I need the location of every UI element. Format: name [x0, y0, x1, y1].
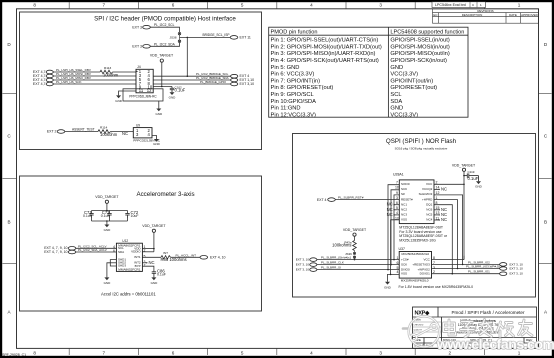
jumper JS36 — [353, 251, 355, 260]
capacitor C71 — [89, 214, 93, 219]
svg-text:EXT 4: EXT 4 — [317, 198, 327, 202]
wire U37 right pins to bus — [432, 184, 465, 273]
svg-text:GND: GND — [104, 228, 112, 232]
ground (U9) — [153, 139, 161, 146]
capacitor C119 — [464, 173, 479, 181]
ground (C119) — [475, 181, 483, 188]
connector EXT left (accel SCL/SDA) — [68, 247, 76, 254]
junction bridge net on SCL wire — [187, 75, 189, 77]
svg-text:VCC(3.3V): VCC(3.3V) — [390, 112, 418, 118]
svg-text:CHECKED: CHECKED — [414, 325, 424, 327]
svg-text:GND: GND — [475, 185, 483, 189]
section box SPI/I2C header — [20, 12, 262, 150]
svg-text:For 1.8V board version use MX2: For 1.8V board version use MX25R6435FM2I… — [399, 285, 474, 289]
ground (C86) — [151, 277, 159, 284]
wire loop to gnd stem — [158, 101, 160, 109]
svg-text:U37: U37 — [399, 247, 405, 251]
svg-text:VDD_TARGET: VDD_TARGET — [95, 195, 119, 199]
wire EXT2 to R114 — [65, 131, 98, 133]
margin tick marks bottom — [69, 349, 484, 356]
svg-text:0.1uF: 0.1uF — [83, 214, 92, 218]
svg-text:VDD_TARGET: VDD_TARGET — [452, 163, 476, 167]
svg-text:INT1: INT1 — [134, 255, 141, 259]
connector EXT right bank (3 ovals) — [231, 74, 238, 85]
svg-text:7: 7 — [144, 264, 146, 268]
svg-text:10uF: 10uF — [131, 214, 139, 218]
grid column labels bottom — [33, 351, 520, 356]
svg-text:GND: GND — [151, 281, 159, 285]
svg-text:SCL: SCL — [390, 92, 401, 98]
svg-text:GPIO/SPI-SCK(in/out): GPIO/SPI-SCK(in/out) — [390, 58, 447, 64]
svg-text:EXT 3: EXT 3 — [132, 25, 142, 29]
watermark elecfans logo circle — [403, 316, 439, 347]
capacitor C73 — [107, 214, 111, 219]
svg-text:R86 100ohms: R86 100ohms — [161, 257, 187, 262]
svg-text:Pin 2: GPIO/SPI-MOSI(out)/UAR: Pin 2: GPIO/SPI-MOSI(out)/UART-TXD(out) — [271, 44, 382, 50]
margin tick marks right — [539, 94, 552, 264]
svg-text:5: 5 — [241, 2, 244, 7]
capacitor C102 — [170, 87, 174, 93]
section box QSPI NOR Flash — [293, 134, 536, 298]
svg-text:QSPI (SPIFI ) NOR Flash: QSPI (SPIFI ) NOR Flash — [386, 138, 457, 145]
power VDD_TARGET (flash) — [452, 163, 476, 184]
flash U28A1 — [393, 172, 434, 223]
svg-text:6: 6 — [172, 2, 175, 7]
svg-text:LPC54608 supported function: LPC54608 supported function — [390, 30, 464, 36]
connector EXT3 (SCL) — [132, 25, 150, 29]
ground (cap bank) — [104, 225, 112, 233]
watermark url text — [436, 336, 554, 352]
net labels qspi left bus — [321, 256, 352, 270]
junction right bus — [462, 264, 464, 266]
svg-text:R114: R114 — [100, 126, 107, 130]
svg-text:Accel I2C addrs = 0b0011101: Accel I2C addrs = 0b0011101 — [101, 292, 156, 297]
svg-text:EXT 3,10: EXT 3,10 — [240, 82, 255, 86]
svg-text:VCCQ2: VCCQ2 — [422, 187, 433, 191]
svg-text:VCC: VCC — [423, 257, 430, 261]
svg-text:EXT 11: EXT 11 — [240, 36, 251, 40]
svg-text:0.1uF: 0.1uF — [101, 214, 110, 218]
connector J4 PMOD header — [136, 65, 153, 93]
svg-text:PPPC062LJBN-RC: PPPC062LJBN-RC — [129, 94, 157, 98]
flash U37 (SO8) — [399, 247, 432, 278]
connector EXT11 — [230, 36, 251, 40]
svg-text:SDA: SDA — [118, 250, 124, 254]
resistor R114 — [98, 130, 111, 134]
svg-text:B: B — [544, 220, 547, 225]
svg-text:VSS: VSS — [401, 218, 407, 222]
svg-text:NC1: NC1 — [401, 202, 407, 206]
net labels qspi right bus — [466, 260, 506, 273]
ground (flash vss) — [384, 282, 392, 290]
svg-text:RESET#: RESET# — [401, 197, 413, 201]
svg-text:NC3: NC3 — [401, 213, 407, 217]
grid row labels right — [544, 42, 548, 315]
NC mark INT2 — [142, 260, 154, 265]
svg-text:EXT 3, 10: EXT 3, 10 — [296, 268, 310, 272]
svg-text:Pin 3: GPIO/SPI-MISO(in)/UART: Pin 3: GPIO/SPI-MISO(in)/UART-RXD(in) — [271, 51, 376, 57]
junction accel vdd — [153, 248, 155, 250]
svg-text:Accelerometer 3-axis: Accelerometer 3-axis — [136, 191, 194, 198]
grid column labels top — [33, 2, 520, 7]
svg-text:1: 1 — [518, 2, 521, 7]
svg-text:EXT 4,7: EXT 4,7 — [33, 82, 46, 86]
svg-text:SHD3: SHD3 — [118, 264, 126, 268]
svg-text:DATE: DATE — [509, 13, 517, 17]
svg-text:PL_LSPI_HS_SCK: PL_LSPI_HS_SCK — [56, 80, 82, 84]
connector EXT 4,10 (INT) — [200, 255, 226, 259]
wire SCL to jumper — [150, 27, 179, 32]
connector EXT left bank (4 ovals) — [46, 70, 53, 86]
svg-text:INT: INT — [163, 251, 168, 255]
svg-text:LPC546xx Eval brd: LPC546xx Eval brd — [435, 3, 466, 7]
svg-text:NC: NC — [149, 260, 155, 265]
svg-text:+CS#: +CS# — [401, 257, 409, 261]
svg-text:SO16 pkg / SO8 pkg mutually ex: SO16 pkg / SO8 pkg mutually exclusive — [395, 147, 448, 151]
svg-text:VDD_TARGET: VDD_TARGET — [142, 224, 166, 228]
wire J4 pin11 to left gnd — [119, 91, 136, 95]
junction vdd/cap — [463, 175, 465, 177]
svg-text:PL_SLBRR_RST#: PL_SLBRR_RST# — [338, 196, 364, 200]
resistor R86 — [161, 256, 171, 259]
svg-text:SPF-29028_C1: SPF-29028_C1 — [2, 353, 26, 357]
junction bridge/vertical — [187, 37, 189, 39]
svg-text:PL_SLBRR_CLK: PL_SLBRR_CLK — [321, 261, 344, 265]
svg-text:EXT 3: EXT 3 — [132, 45, 142, 49]
title block — [413, 307, 537, 348]
svg-text:BRIDGE_SCL_ISP: BRIDGE_SCL_ISP — [202, 33, 229, 37]
svg-text:100kohm: 100kohm — [100, 132, 118, 137]
wire U28A1 vss down — [391, 220, 400, 275]
svg-text:SHLD/IO3: SHLD/IO3 — [419, 192, 433, 196]
wire bridge out — [180, 36, 231, 38]
svg-text:5: 5 — [144, 255, 146, 259]
svg-text:GPIO/RESET(out): GPIO/RESET(out) — [390, 85, 437, 91]
power VDD_TARGET (J4) — [150, 54, 174, 87]
svg-text:Pin 4: GPIO/SPI-SCK(out)/UART: Pin 4: GPIO/SPI-SCK(out)/UART-RTS(out) — [271, 58, 379, 64]
svg-text:4: 4 — [397, 270, 399, 274]
ground (left of J4) — [115, 95, 123, 102]
svg-text:GND: GND — [153, 142, 161, 146]
wire VCC pin to vdd — [434, 183, 464, 185]
svg-text:GND: GND — [390, 106, 403, 112]
NC marks left NC pins — [387, 202, 400, 217]
svg-text:8: 8 — [33, 2, 36, 7]
svg-text:GPIO/INT(out/in): GPIO/INT(out/in) — [390, 78, 433, 84]
wire accel shd pins to gnd — [107, 260, 117, 278]
wire reset to flash — [335, 199, 399, 201]
svg-text:VDD_TARGET: VDD_TARGET — [150, 54, 174, 58]
svg-text:PMOD pin function: PMOD pin function — [271, 30, 318, 36]
power VDD_TARGET (accel) — [142, 224, 166, 252]
resistor R43a pull-up — [353, 241, 357, 251]
svg-text:6: 6 — [172, 351, 175, 356]
svg-text:SDA: SDA — [390, 99, 402, 105]
connector EXT2 — [47, 130, 65, 134]
svg-text:4: 4 — [310, 2, 313, 7]
svg-text:SPI / I2C header (PMOD compati: SPI / I2C header (PMOD compatible) Host … — [94, 16, 236, 23]
accelerometer U12 — [116, 239, 142, 271]
connector EXT3 (SDA) — [132, 45, 150, 49]
svg-text:U9: U9 — [136, 124, 140, 128]
svg-text:SI/IO0: SI/IO0 — [401, 182, 410, 186]
svg-text:Pin 8: GPIO/RESET(out): Pin 8: GPIO/RESET(out) — [271, 85, 334, 91]
svg-text:BYP: BYP — [135, 264, 141, 268]
svg-text:NC: NC — [387, 212, 393, 217]
svg-text:NC6: NC6 — [426, 208, 432, 212]
svg-text:DQ1: DQ1 — [426, 202, 433, 206]
svg-text:ASSERT_TEST: ASSERT_TEST — [72, 127, 95, 131]
capacitor C86 — [152, 272, 156, 278]
wire accel i2c — [76, 248, 117, 252]
connector EXT 3,10 left bank QSPI — [310, 258, 317, 272]
svg-text:EXT 3, 10: EXT 3, 10 — [296, 263, 310, 267]
junction pullup on cs wire — [354, 259, 356, 261]
svg-text:8: 8 — [33, 351, 36, 356]
svg-text:Pin 10:GPIO/SDA: Pin 10:GPIO/SDA — [271, 99, 317, 105]
wire R114 to U9 — [111, 131, 134, 133]
svg-text:6: 6 — [113, 249, 115, 253]
svg-text:100kohms: 100kohms — [332, 243, 351, 248]
svg-text:Pin 9: GPIO/SCL: Pin 9: GPIO/SCL — [271, 92, 314, 98]
svg-text:VDDIO: VDDIO — [131, 249, 141, 253]
net labels right bus — [196, 72, 229, 84]
wire bus left to J4 — [53, 72, 136, 84]
svg-text:PL_BRIDGE_GPIO: PL_BRIDGE_GPIO — [200, 80, 227, 84]
svg-text:QUALITY: QUALITY — [414, 329, 423, 332]
PMOD pin function table — [269, 27, 468, 117]
junction cap bank — [106, 210, 108, 212]
svg-text:NC4: NC4 — [426, 218, 432, 222]
power VDD_TARGET (pullup) — [343, 228, 367, 241]
svg-text:3: 3 — [379, 351, 382, 356]
svg-text:GND: GND — [155, 112, 163, 116]
wire cap bank rails — [92, 211, 128, 225]
svg-text:DESCRIPTION: DESCRIPTION — [462, 13, 483, 17]
wire U37 vss to gnd — [388, 274, 400, 281]
svg-text:VDD_TARGET: VDD_TARGET — [343, 228, 367, 232]
svg-text:7: 7 — [103, 351, 106, 356]
svg-text:+RESET/IO3: +RESET/IO3 — [412, 262, 430, 266]
svg-text:100ohm: 100ohm — [103, 72, 119, 77]
svg-text:GND: GND — [390, 65, 403, 71]
svg-text:GND: GND — [115, 99, 123, 103]
capacitor C72 — [125, 214, 129, 219]
svg-text:NC: NC — [122, 131, 128, 136]
svg-text:EXT 2: EXT 2 — [47, 130, 57, 134]
svg-text:0.1uF: 0.1uF — [468, 176, 479, 181]
svg-text:4: 4 — [310, 351, 313, 356]
svg-text:B: B — [7, 220, 10, 225]
svg-text:9: 9 — [396, 191, 398, 195]
wire SDA to jumper — [150, 43, 179, 47]
svg-text:PL_ACCL_INT: PL_ACCL_INT — [176, 253, 197, 257]
svg-text:GND: GND — [384, 286, 392, 290]
svg-text:NC: NC — [441, 217, 447, 222]
svg-text:GND: GND — [104, 281, 112, 285]
ground (loop bottom) — [155, 109, 163, 116]
wire resistor to EXT — [171, 256, 201, 258]
svg-text:3: 3 — [379, 2, 382, 7]
junction VDD rail — [161, 86, 163, 88]
svg-text:6: 6 — [397, 261, 399, 265]
svg-text:www.elecfans.com: www.elecfans.com — [436, 336, 554, 352]
svg-text:JS38: JS38 — [169, 35, 176, 39]
svg-text:EXT 3, 10: EXT 3, 10 — [296, 258, 310, 262]
svg-text:S#: S# — [401, 192, 405, 196]
ground (accel shd) — [104, 277, 112, 284]
junction vss — [390, 274, 392, 276]
power VDD_TARGET (cap bank) — [95, 195, 119, 211]
connector EXT 3,10 right bank QSPI — [500, 263, 507, 276]
svg-text:GPIO/SPI-SSEL(in/out): GPIO/SPI-SSEL(in/out) — [390, 38, 449, 44]
svg-text:12: 12 — [436, 191, 440, 195]
svg-text:SCK: SCK — [401, 262, 407, 266]
net labels left bus — [56, 68, 91, 84]
svg-text:NC5: NC5 — [426, 213, 432, 217]
svg-text:0.1uF: 0.1uF — [175, 87, 186, 92]
connector U9 (2x1 header) — [133, 124, 152, 138]
margin tick marks left — [3, 94, 17, 264]
resistor R113 — [100, 70, 113, 74]
wire U9 to gnd — [152, 136, 157, 140]
wire qspi cs/clk/si bus — [317, 185, 399, 270]
svg-text:MX25L12835FM2I-10G: MX25L12835FM2I-10G — [399, 239, 436, 243]
net labels accel i2c — [78, 244, 107, 252]
svg-text:DO/IO1: DO/IO1 — [420, 272, 431, 276]
svg-text:Pin 1: GPIO/SPI-SSEL(out)/UAR: Pin 1: GPIO/SPI-SSEL(out)/UART-CTS(in) — [271, 38, 379, 44]
margin tick marks top — [69, 2, 484, 9]
svg-text:VCC(3.3V): VCC(3.3V) — [390, 72, 418, 78]
svg-text:Pin 12:VCC(3.3V): Pin 12:VCC(3.3V) — [271, 112, 316, 118]
svg-text:R113: R113 — [104, 66, 111, 70]
svg-text:Pin 6: VCC(3.3V): Pin 6: VCC(3.3V) — [271, 72, 315, 78]
wire bridge down to bus — [186, 37, 188, 76]
svg-text:C119: C119 — [468, 170, 475, 174]
svg-text:NC: NC — [441, 186, 447, 191]
svg-text:PL_I2C2_SDA_ACLV: PL_I2C2_SDA_ACLV — [78, 248, 107, 252]
svg-text:PL_SLBRR_IO1: PL_SLBRR_IO1 — [468, 270, 490, 274]
doc id box in top margin — [432, 2, 486, 8]
svg-text:NC2: NC2 — [401, 208, 407, 212]
svg-text:MX25R6435FM2IL0: MX25R6435FM2IL0 — [401, 252, 429, 256]
wire loop under J4 — [123, 89, 163, 101]
wire flash right-side drops — [434, 195, 500, 274]
junction bus branches — [393, 259, 395, 261]
svg-text:EXT 4, 10: EXT 4, 10 — [210, 256, 226, 260]
svg-text:Pin 7: GPIO/INT(in): Pin 7: GPIO/INT(in) — [271, 78, 321, 84]
revisions table — [433, 9, 539, 23]
svg-text:PL_SLBRR_SI: PL_SLBRR_SI — [321, 266, 341, 270]
svg-text:MX25R6435FM2IL0: MX25R6435FM2IL0 — [401, 279, 429, 283]
svg-text:APPROVED: APPROVED — [521, 13, 539, 17]
company info lines — [455, 319, 501, 334]
grid row labels left — [7, 42, 11, 315]
svg-text:VSS: VSS — [401, 272, 407, 276]
watermark chinese characters — [444, 320, 533, 338]
svg-text:0.1uF: 0.1uF — [157, 273, 166, 277]
section box Accelerometer — [20, 176, 262, 311]
wire INT1 to resistor — [142, 256, 161, 258]
svg-text:PL_I2C2_SCL: PL_I2C2_SCL — [154, 23, 175, 27]
svg-text:8: 8 — [433, 256, 435, 260]
svg-text:Pin 5: GND: Pin 5: GND — [271, 65, 300, 71]
svg-text:GPIO/SPI-MOSI(in/out): GPIO/SPI-MOSI(in/out) — [390, 44, 449, 50]
wire VDD to accel — [142, 249, 154, 252]
jumper JS38 — [178, 32, 181, 42]
svg-text:5: 5 — [241, 351, 244, 356]
connector EXT4 (reset) — [317, 198, 335, 202]
svg-text:7: 7 — [103, 2, 106, 7]
svg-text:EXT 4, 7, 9, 10: EXT 4, 7, 9, 10 — [44, 250, 67, 254]
svg-text:EXT 3, 10: EXT 3, 10 — [510, 267, 524, 271]
svg-text:GND: GND — [169, 96, 177, 100]
svg-text:EXT 3, 10: EXT 3, 10 — [510, 272, 524, 276]
ground (C102) — [169, 92, 177, 99]
svg-text:+HPRD: +HPRD — [422, 197, 433, 201]
svg-text:Pin 11:GND: Pin 11:GND — [271, 106, 301, 112]
NC mark VCCQ2 — [434, 186, 447, 191]
wire bus right of J4 — [153, 76, 230, 84]
svg-text:16: 16 — [395, 186, 399, 190]
NC marks right NC pins — [434, 207, 447, 222]
svg-text:SCK: SCK — [401, 187, 407, 191]
wire BYP to cap — [142, 266, 154, 272]
svg-text:PL_SLBRR_(Sb-b#)x1: PL_SLBRR_(Sb-b#)x1 — [321, 256, 352, 260]
svg-text:7: 7 — [396, 181, 398, 185]
svg-text:1: 1 — [397, 256, 399, 260]
svg-text:U28A1: U28A1 — [393, 172, 404, 176]
svg-text:GPIO/SPI-MISO(out/in): GPIO/SPI-MISO(out/in) — [390, 51, 449, 57]
svg-text:Pmod / SPIFI Flash / Accelerom: Pmod / SPIFI Flash / Accelerometer — [451, 310, 524, 315]
wire VCC rail right of J4 — [153, 86, 172, 88]
svg-text:PL_I2C2_SDA: PL_I2C2_SDA — [154, 42, 176, 46]
note flash type upper — [399, 226, 448, 243]
svg-text:VCC: VCC — [426, 182, 433, 186]
